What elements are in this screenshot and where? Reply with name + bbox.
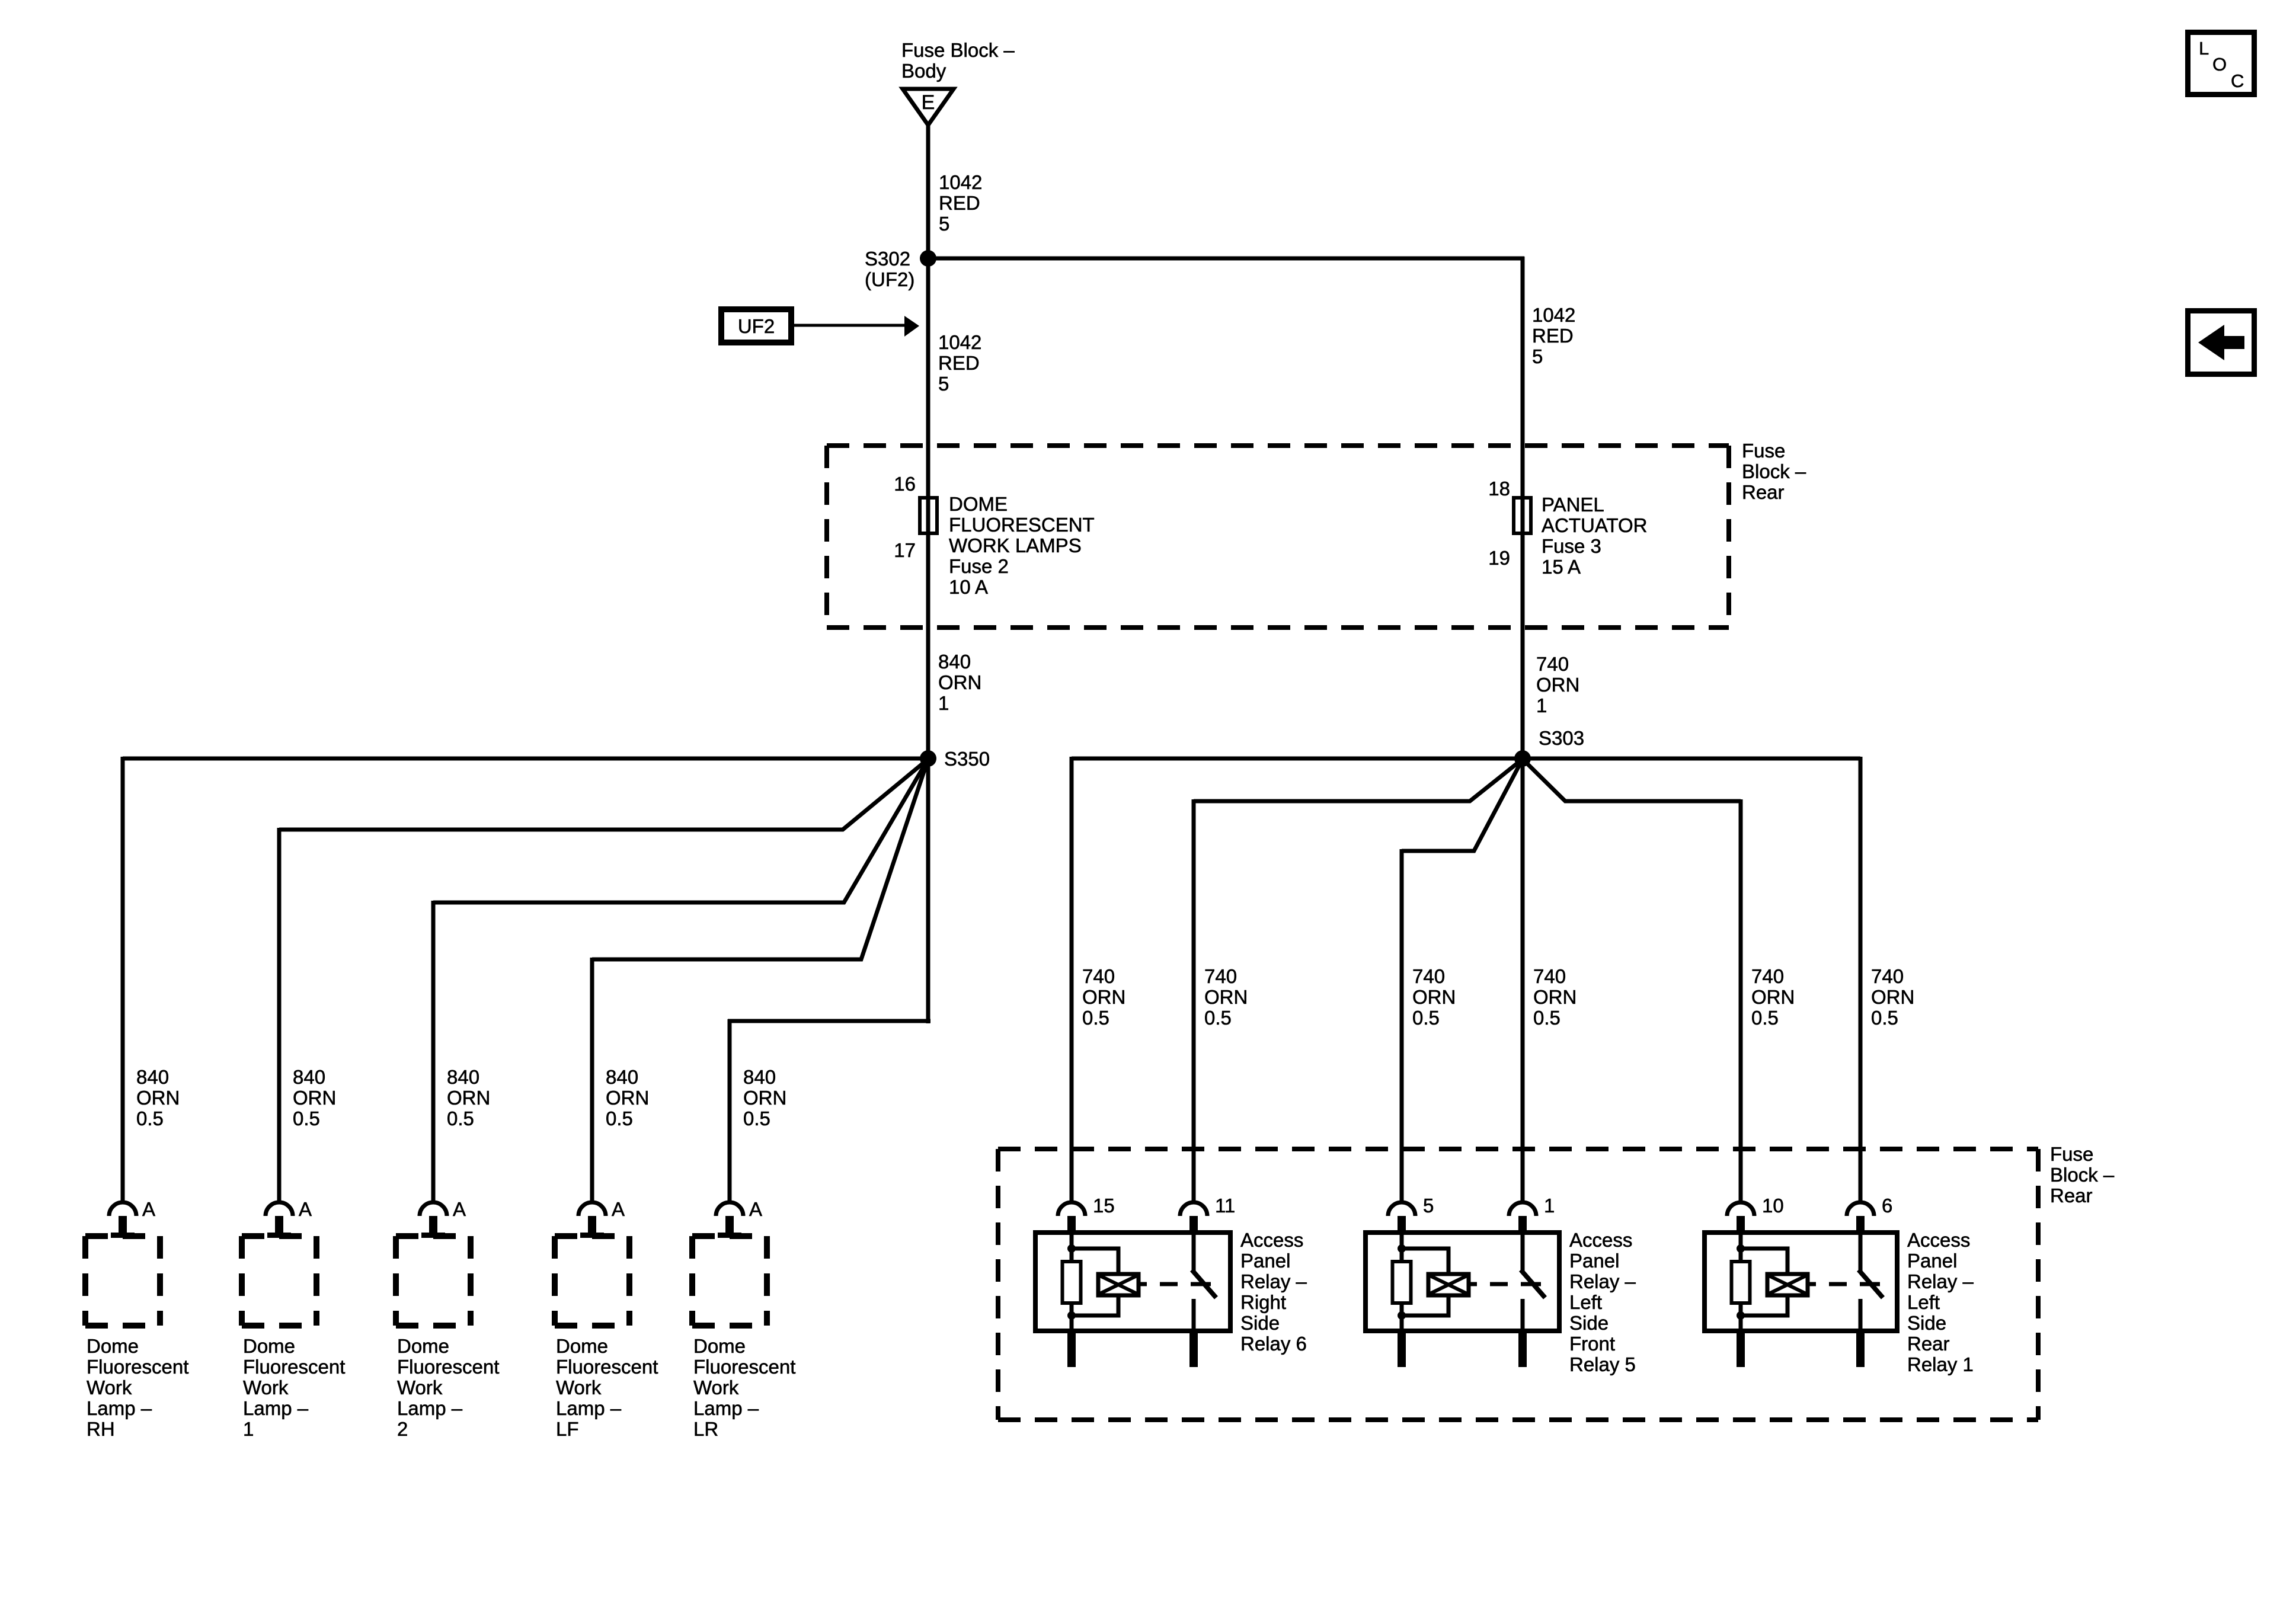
svg-text:A: A <box>749 1198 762 1220</box>
fuse block - rear (upper) dashed outline <box>827 446 1729 628</box>
switch upper terminal <box>1521 1233 1525 1271</box>
svg-text:PANELACTUATORFuse 315 A: PANELACTUATORFuse 315 A <box>1542 494 1647 578</box>
svg-text:1042RED5: 1042RED5 <box>939 171 982 235</box>
svg-text:740ORN0.5: 740ORN0.5 <box>1204 965 1248 1029</box>
label Fuse Block - Rear (lower) <box>2050 1143 2115 1206</box>
value label 840 ORN 0.5 <box>293 1066 336 1129</box>
wire S350 branch 5 horizontal <box>728 1019 930 1023</box>
svg-text:AccessPanelRelay –RightSideRel: AccessPanelRelay –RightSideRelay 6 <box>1240 1229 1307 1355</box>
dome fluorescent work lamp 1 dashed outline <box>242 1236 316 1326</box>
wire S302 to right branch <box>928 257 1524 261</box>
wire 840 ORN 0.5 to lamp LR <box>728 1019 732 1202</box>
value label 740 ORN 0.5 <box>1533 965 1576 1029</box>
svg-text:DomeFluorescentWorkLamp –RH: DomeFluorescentWorkLamp –RH <box>87 1335 188 1440</box>
connector pin 5 of Relay 5 <box>1388 1202 1415 1216</box>
svg-text:A: A <box>142 1198 155 1220</box>
coil branch lower <box>1402 1294 1448 1315</box>
pin A <box>749 1198 762 1220</box>
coil feed lower <box>1400 1303 1404 1331</box>
coil branch upper <box>1741 1249 1787 1275</box>
fuse block - rear (lower) dashed outline <box>998 1149 2038 1420</box>
pin 18 <box>1488 478 1510 500</box>
svg-text:19: 19 <box>1488 547 1510 569</box>
dome fluorescent work lamp LF dashed outline <box>555 1236 629 1326</box>
dome fluorescent work lamp LR dashed outline <box>692 1236 767 1326</box>
label Access Panel Relay Relay 6 <box>1240 1229 1307 1355</box>
svg-text:C: C <box>2231 71 2244 91</box>
connector pin bar <box>580 1233 604 1238</box>
label Dome Fluorescent Work Lamp 1 <box>243 1335 345 1440</box>
connector pin 11 of Relay 6 <box>1180 1202 1207 1216</box>
wire S350 branch 4 diagonal+horizontal <box>592 759 928 959</box>
svg-text:L: L <box>2199 38 2209 59</box>
svg-text:18: 18 <box>1488 478 1510 500</box>
junction <box>1737 1244 1745 1253</box>
svg-text:O: O <box>2212 54 2227 75</box>
svg-text:A: A <box>612 1198 625 1220</box>
value label 840 ORN 0.5 <box>136 1066 180 1129</box>
switch blade <box>1859 1270 1883 1298</box>
pin 11 <box>1215 1195 1235 1217</box>
value label 740 ORN 0.5 <box>1751 965 1795 1029</box>
switch blade <box>1192 1270 1216 1298</box>
relay coil <box>1428 1274 1469 1295</box>
fuse F3 (Panel Actuator Fuse 3 15A) <box>1514 498 1531 533</box>
label Dome Fluorescent Work Lamp RH <box>87 1335 188 1440</box>
pin 5 <box>1423 1195 1434 1217</box>
back-arrow navigation box <box>2188 311 2255 375</box>
fuse F2 (Dome Fluorescent Work Lamps Fuse 2 10A) <box>920 498 937 533</box>
svg-text:740ORN0.5: 740ORN0.5 <box>1533 965 1576 1029</box>
label Access Panel Relay Relay 5 <box>1569 1229 1636 1375</box>
svg-text:1: 1 <box>1544 1195 1555 1217</box>
svg-text:1042RED5: 1042RED5 <box>1532 304 1575 367</box>
wire S303 branch to pin 10 <box>1523 759 1741 801</box>
connector E (power feed from Fuse Block - Body) <box>903 89 954 125</box>
wire S303 branch right horizontal <box>1523 757 1860 761</box>
connector pin <box>725 1216 734 1234</box>
coil branch lower <box>1741 1294 1787 1315</box>
pin 1 <box>1544 1195 1555 1217</box>
coil-to-contact link (dashed) <box>1469 1282 1541 1286</box>
svg-text:740ORN0.5: 740ORN0.5 <box>1412 965 1456 1029</box>
label S302 (UF2) <box>865 248 914 290</box>
wire S350 branch 2 diagonal+horizontal <box>279 759 928 830</box>
wire 740 ORN 0.5 to pin 6 <box>1859 757 1863 1202</box>
junction <box>1067 1244 1076 1253</box>
dome fluorescent work lamp RH dashed outline <box>85 1236 160 1326</box>
wire S303 branch to pin 11 <box>1194 759 1523 801</box>
connector pin bar <box>718 1233 741 1238</box>
coil-to-contact link (dashed) <box>1139 1282 1211 1286</box>
switch lower terminal <box>1521 1299 1525 1331</box>
coil branch upper <box>1402 1249 1448 1275</box>
value label 840 ORN 0.5 <box>606 1066 649 1129</box>
connector pin bar <box>267 1233 291 1238</box>
connector pin <box>588 1216 596 1234</box>
coil-to-contact link (dashed) <box>1808 1282 1880 1286</box>
svg-text:840ORN0.5: 840ORN0.5 <box>293 1066 336 1129</box>
dome fluorescent work lamp 2 dashed outline <box>396 1236 471 1326</box>
splice S302 (UF2) <box>920 250 936 267</box>
pin stub below <box>1737 1331 1745 1367</box>
svg-text:DomeFluorescentWorkLamp –LF: DomeFluorescentWorkLamp –LF <box>556 1335 658 1440</box>
svg-text:740ORN0.5: 740ORN0.5 <box>1871 965 1914 1029</box>
pin stub <box>1067 1216 1076 1233</box>
wire 1042 RED 5 lower / 840 ORN drop to S350 <box>926 258 930 758</box>
value label 840 ORN 0.5 <box>447 1066 490 1129</box>
wire 740 ORN 0.5 to pin 1 <box>1521 758 1525 1202</box>
pin stub below <box>1398 1331 1406 1367</box>
pin A <box>299 1198 312 1220</box>
wire S350 branch 3 diagonal+horizontal <box>433 759 928 902</box>
svg-text:FuseBlock –Rear: FuseBlock –Rear <box>2050 1143 2115 1206</box>
coil branch upper <box>1072 1249 1118 1275</box>
svg-text:E: E <box>922 91 935 114</box>
pin 10 <box>1762 1195 1784 1217</box>
wire 1042 RED 5 (feed to S302) <box>926 124 930 261</box>
coil branch lower <box>1072 1294 1118 1315</box>
coil feed lower <box>1070 1303 1074 1331</box>
svg-text:840ORN1: 840ORN1 <box>938 651 981 714</box>
wire S350 main drop <box>926 758 930 1023</box>
coil feed upper <box>1070 1233 1074 1262</box>
wire 740 ORN 0.5 to pin 5 <box>1400 849 1404 1202</box>
label Access Panel Relay Relay 1 <box>1907 1229 1974 1375</box>
value label 740 ORN 0.5 <box>1204 965 1248 1029</box>
svg-text:A: A <box>299 1198 312 1220</box>
label fuse 3 <box>1542 494 1647 578</box>
connector pin <box>275 1216 283 1234</box>
pin 15 <box>1093 1195 1115 1217</box>
label S303 <box>1539 727 1584 749</box>
relay Relay 1 box <box>1705 1233 1897 1331</box>
svg-text:DomeFluorescentWorkLamp –LR: DomeFluorescentWorkLamp –LR <box>693 1335 795 1440</box>
relay Relay 6 box <box>1035 1233 1230 1331</box>
connector pin 6 of Relay 1 <box>1847 1202 1874 1216</box>
connector A of lamp RH <box>109 1202 136 1216</box>
label Fuse Block - Rear (upper) <box>1742 440 1806 503</box>
switch upper terminal <box>1192 1233 1196 1271</box>
svg-text:FuseBlock –Rear: FuseBlock –Rear <box>1742 440 1806 503</box>
value label 840 ORN 1 <box>938 651 981 714</box>
coil feed upper <box>1400 1233 1404 1262</box>
svg-text:840ORN0.5: 840ORN0.5 <box>743 1066 786 1129</box>
connector pin 1 of Relay 5 <box>1509 1202 1536 1216</box>
pin stub below <box>1856 1331 1865 1367</box>
connector A of lamp LR <box>716 1202 743 1216</box>
pin stub <box>1856 1216 1865 1233</box>
svg-text:17: 17 <box>894 539 916 561</box>
relay coil <box>1767 1274 1808 1295</box>
pin 6 <box>1882 1195 1892 1217</box>
svg-text:740ORN1: 740ORN1 <box>1536 653 1579 716</box>
switch blade <box>1521 1270 1545 1298</box>
resistor (coil suppression) <box>1732 1262 1750 1303</box>
wire 740 ORN 0.5 to pin 10 <box>1739 799 1743 1202</box>
connector pin 15 of Relay 6 <box>1058 1202 1085 1216</box>
coil feed lower <box>1739 1303 1743 1331</box>
wire S303 branch to pin 5 <box>1402 759 1523 851</box>
pin A <box>453 1198 466 1220</box>
switch lower terminal <box>1859 1299 1863 1331</box>
wire 1042 RED 5 right drop to S303 <box>1521 257 1525 758</box>
resistor (coil suppression) <box>1063 1262 1081 1303</box>
pin 16 <box>894 473 916 495</box>
value label 740 ORN 0.5 <box>1412 965 1456 1029</box>
wire 840 ORN 0.5 to lamp 1 <box>277 828 282 1202</box>
svg-text:16: 16 <box>894 473 916 495</box>
pin stub <box>1189 1216 1198 1233</box>
label Fuse Block - Body <box>901 39 1015 82</box>
pin stub below <box>1518 1331 1527 1367</box>
resistor (coil suppression) <box>1393 1262 1411 1303</box>
connector A of lamp LF <box>578 1202 606 1216</box>
svg-text:DomeFluorescentWorkLamp –1: DomeFluorescentWorkLamp –1 <box>243 1335 345 1440</box>
harness reference box UF2 <box>721 309 791 343</box>
svg-text:740ORN0.5: 740ORN0.5 <box>1082 965 1125 1029</box>
svg-text:1042RED5: 1042RED5 <box>938 331 981 395</box>
junction <box>1398 1311 1406 1320</box>
svg-text:740ORN0.5: 740ORN0.5 <box>1751 965 1795 1029</box>
wire S303 branch left horizontal <box>1072 757 1523 761</box>
relay Relay 5 box <box>1366 1233 1559 1331</box>
value label 740 ORN 0.5 <box>1082 965 1125 1029</box>
svg-text:DOMEFLUORESCENTWORK LAMPSFuse: DOMEFLUORESCENTWORK LAMPSFuse 210 A <box>949 493 1095 598</box>
svg-text:Fuse Block –Body: Fuse Block –Body <box>901 39 1015 82</box>
svg-text:AccessPanelRelay –LeftSideRear: AccessPanelRelay –LeftSideRearRelay 1 <box>1907 1229 1974 1375</box>
svg-text:840ORN0.5: 840ORN0.5 <box>136 1066 180 1129</box>
connector pin <box>429 1216 437 1234</box>
switch lower terminal <box>1192 1299 1196 1331</box>
svg-text:S302(UF2): S302(UF2) <box>865 248 914 290</box>
relay coil <box>1098 1274 1139 1295</box>
connector A of lamp 1 <box>266 1202 293 1216</box>
svg-text:A: A <box>453 1198 466 1220</box>
pin A <box>612 1198 625 1220</box>
label Dome Fluorescent Work Lamp LR <box>693 1335 795 1440</box>
pin 17 <box>894 539 916 561</box>
value label 1042 RED 5 (upper) <box>939 171 982 235</box>
connector pin <box>119 1216 127 1234</box>
splice S303 <box>1514 750 1531 767</box>
value label 740 ORN 1 <box>1536 653 1579 716</box>
label Dome Fluorescent Work Lamp LF <box>556 1335 658 1440</box>
svg-text:11: 11 <box>1215 1195 1235 1217</box>
svg-text:AccessPanelRelay –LeftSideFron: AccessPanelRelay –LeftSideFrontRelay 5 <box>1569 1229 1636 1375</box>
value label 840 ORN 0.5 <box>743 1066 786 1129</box>
svg-text:DomeFluorescentWorkLamp –2: DomeFluorescentWorkLamp –2 <box>397 1335 499 1440</box>
LOC reference box <box>2188 33 2255 95</box>
connector A of lamp 2 <box>420 1202 447 1216</box>
value label 1042 RED 5 (lower left) <box>938 331 981 395</box>
wire 840 ORN 0.5 to lamp 2 <box>431 901 436 1202</box>
svg-text:10: 10 <box>1762 1195 1784 1217</box>
pin 19 <box>1488 547 1510 569</box>
pin stub below <box>1067 1331 1076 1367</box>
wire 840 ORN 0.5 to lamp RH <box>121 757 125 1202</box>
svg-text:5: 5 <box>1423 1195 1434 1217</box>
switch upper terminal <box>1859 1233 1863 1271</box>
junction <box>1737 1311 1745 1320</box>
svg-text:840ORN0.5: 840ORN0.5 <box>606 1066 649 1129</box>
pin stub <box>1398 1216 1406 1233</box>
junction <box>1067 1311 1076 1320</box>
svg-text:6: 6 <box>1882 1195 1892 1217</box>
splice S350 <box>920 750 936 767</box>
svg-text:S303: S303 <box>1539 727 1584 749</box>
wire 740 ORN 0.5 to pin 11 <box>1192 799 1196 1202</box>
junction <box>1398 1244 1406 1253</box>
label fuse 2 <box>949 493 1095 598</box>
svg-text:840ORN0.5: 840ORN0.5 <box>447 1066 490 1129</box>
wire 840 ORN 0.5 to lamp LF <box>590 958 594 1202</box>
coil feed upper <box>1739 1233 1743 1262</box>
value label 1042 RED 5 (right) <box>1532 304 1575 367</box>
pin stub <box>1518 1216 1527 1233</box>
connector pin 10 of Relay 1 <box>1727 1202 1754 1216</box>
arrow from UF2 box to wire <box>794 316 919 337</box>
value label 740 ORN 0.5 <box>1871 965 1914 1029</box>
wire S350 branch 1 horizontal <box>123 757 928 761</box>
label Dome Fluorescent Work Lamp 2 <box>397 1335 499 1440</box>
svg-text:S350: S350 <box>944 748 990 770</box>
svg-text:15: 15 <box>1093 1195 1115 1217</box>
pin stub <box>1737 1216 1745 1233</box>
pin stub below <box>1189 1331 1198 1367</box>
wire 740 ORN 0.5 to pin 15 <box>1070 757 1074 1202</box>
connector pin bar <box>111 1233 135 1238</box>
connector pin bar <box>421 1233 445 1238</box>
label S350 <box>944 748 990 770</box>
pin A <box>142 1198 155 1220</box>
svg-text:UF2: UF2 <box>738 315 775 337</box>
